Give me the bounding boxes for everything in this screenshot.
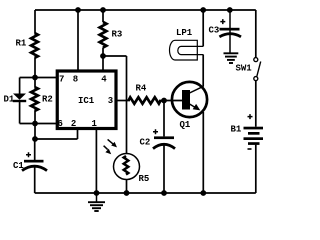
wire node D branch right	[103, 55, 127, 57]
ground at pin 1	[88, 193, 105, 211]
wire R5 bottom	[126, 180, 128, 193]
wire C3 to ground	[229, 10, 231, 53]
wire bottom ground rail	[35, 192, 256, 194]
wire node A to R2	[34, 78, 36, 88]
svg-text:R2: R2	[42, 95, 53, 105]
svg-text:R3: R3	[112, 30, 123, 40]
wire R3 top	[102, 10, 104, 22]
wire pin 8 riser	[77, 10, 79, 71]
svg-text:C2: C2	[140, 138, 151, 148]
svg-text:Q1: Q1	[180, 120, 191, 130]
ground below C3	[224, 53, 239, 63]
wire D1 cathode drop	[19, 102, 21, 124]
svg-text:8: 8	[73, 75, 78, 85]
IC op-amp/timer U IC1 box	[57, 71, 116, 129]
svg-text:D1: D1	[4, 95, 15, 105]
wire R4 to Q1 base through node E	[159, 100, 182, 102]
wire pin 2 horizontal from node C	[35, 138, 78, 140]
lamp LP1	[170, 28, 204, 60]
node C C1/pin2	[32, 136, 38, 142]
svg-text:3: 3	[108, 96, 113, 106]
svg-text:IC1: IC1	[78, 96, 95, 106]
wire pin 1 to ground	[95, 129, 97, 194]
wire R2 bottom through node B to node C	[34, 111, 36, 139]
wire lamp output to Q1 collector	[202, 55, 204, 87]
node C2-rail	[161, 190, 167, 196]
svg-text:SW1: SW1	[236, 64, 253, 74]
wire top supply rail	[35, 9, 256, 11]
svg-text:4: 4	[101, 75, 107, 85]
wire node A left to D1 and right to pin 7	[20, 77, 57, 79]
node lamp-rail	[200, 7, 206, 13]
wire D1 bottom to node B and pin 6	[20, 123, 57, 125]
svg-text:R5: R5	[139, 174, 150, 184]
wire D1 anode drop	[19, 78, 21, 94]
diode D1	[4, 94, 27, 105]
capacitor C2	[140, 129, 176, 148]
photoresistor R5	[104, 139, 150, 184]
wire pin 3 output	[116, 100, 130, 102]
capacitor C1	[13, 152, 47, 171]
node D R3/pin4/R5	[100, 53, 106, 59]
svg-text:B1: B1	[231, 125, 242, 135]
wire R3 bottom to pin 4	[102, 48, 104, 72]
svg-text:1: 1	[92, 119, 98, 129]
node R3-rail	[100, 7, 106, 13]
transistor Q1	[172, 82, 207, 130]
node E R4/base/C2	[161, 98, 167, 104]
wire C1 to bottom rail	[34, 167, 36, 194]
wire node C to C1	[34, 139, 36, 160]
svg-text:6: 6	[58, 119, 63, 129]
capacitor C3	[209, 19, 242, 37]
svg-text:R1: R1	[16, 39, 27, 49]
wire B1 to bottom rail	[255, 145, 257, 193]
node emitter-rail	[200, 190, 206, 196]
svg-text:C3: C3	[209, 26, 220, 36]
resistor R2	[31, 87, 38, 111]
svg-text:C1: C1	[13, 161, 24, 171]
node ground-rail	[94, 190, 100, 196]
wire node D down to R5	[126, 56, 128, 154]
switch SW1	[236, 58, 261, 81]
wire pin 2 riser	[77, 129, 79, 140]
node pin8-rail	[75, 7, 81, 13]
svg-text:LP1: LP1	[176, 28, 193, 38]
wire R1 bottom to node A	[34, 58, 36, 78]
wire Q1 emitter to bottom rail	[202, 112, 204, 193]
wire R1 top drop	[34, 10, 36, 33]
wire SW1 to B1	[255, 81, 257, 127]
resistor R1	[31, 33, 38, 58]
wire lamp input from top rail	[202, 10, 204, 46]
junction node dots	[32, 7, 233, 196]
node A R1/D1/R2/pin7	[32, 75, 38, 81]
svg-text:R4: R4	[136, 84, 147, 94]
battery B1	[231, 114, 264, 149]
node C3-rail	[227, 7, 233, 13]
resistor R3	[100, 22, 107, 48]
node R5-rail	[124, 190, 130, 196]
svg-text:2: 2	[71, 119, 76, 129]
wire C2 to bottom rail	[163, 145, 165, 193]
wire top rail to SW1	[255, 10, 257, 58]
resistor R4	[129, 97, 161, 103]
node B D1/R2/pin6	[32, 121, 38, 127]
svg-text:7: 7	[59, 75, 64, 85]
wire node E down to C2	[163, 101, 165, 137]
